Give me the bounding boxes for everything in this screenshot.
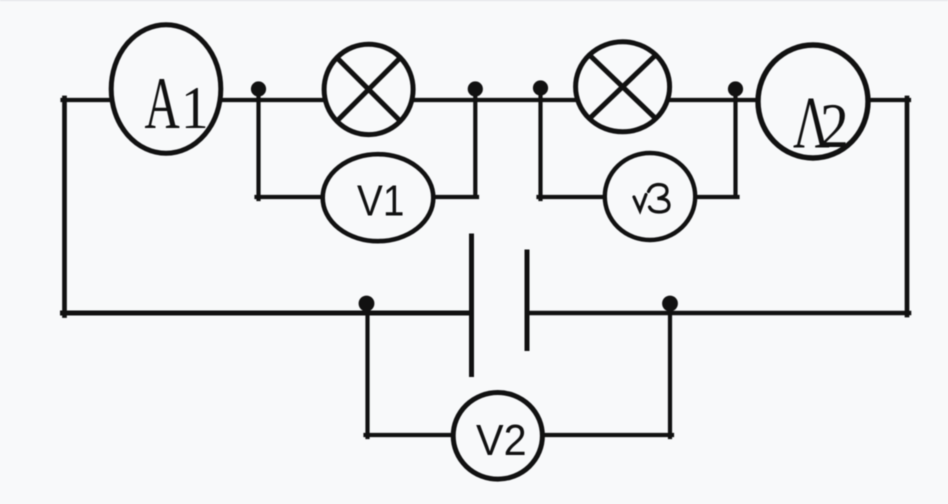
- wire A2 to right corner: [867, 98, 909, 102]
- ammeter A1: [111, 25, 221, 154]
- svg-text:V2: V2: [476, 416, 527, 465]
- voltmeter V1: [323, 154, 434, 241]
- node d junction dot: [728, 81, 743, 96]
- wire A1 to lamp L1 (through node a): [221, 98, 324, 102]
- svg-text:V1: V1: [357, 175, 404, 225]
- wire node f down to V2 level: [668, 305, 672, 437]
- wire node e down to V2 level: [365, 305, 369, 437]
- wire lamp L1 to lamp L2 (through nodes b,c): [412, 98, 577, 102]
- node c junction dot: [533, 80, 548, 95]
- wire V3 right: [694, 195, 738, 199]
- svg-text:A: A: [145, 62, 180, 145]
- lamp L1: [324, 44, 413, 134]
- wire node a down to V1 level: [256, 91, 260, 199]
- wire V1 right: [433, 195, 477, 199]
- node a junction dot: [251, 81, 266, 96]
- voltmeter V3: [605, 153, 695, 240]
- wire V2 right: [542, 433, 672, 437]
- wire node c down to V3 level: [538, 90, 542, 199]
- wire lamp L2 to A2 (through node d): [669, 98, 759, 102]
- battery long plate: [469, 234, 474, 378]
- node b junction dot: [468, 81, 483, 96]
- svg-text:2: 2: [820, 91, 849, 161]
- node f junction dot: [662, 296, 678, 312]
- wire V3 left: [539, 195, 607, 199]
- svg-text:1: 1: [181, 76, 209, 142]
- wire node d down to V3 level: [733, 91, 737, 195]
- battery short plate: [525, 250, 530, 352]
- wire right vertical: [905, 98, 910, 315]
- ammeter A2: [758, 45, 868, 164]
- voltmeter V2: [453, 393, 542, 480]
- wire V1 left: [257, 195, 325, 199]
- wire left top horizontal: [63, 98, 112, 102]
- lamp L2: [576, 42, 670, 132]
- node e junction dot: [359, 296, 375, 312]
- wire bottom left horizontal: [63, 311, 470, 316]
- wire bottom right horizontal: [530, 311, 910, 316]
- wire node b down to V1 level: [473, 91, 477, 195]
- wire V2 left: [366, 433, 455, 437]
- wire left vertical: [62, 98, 67, 316]
